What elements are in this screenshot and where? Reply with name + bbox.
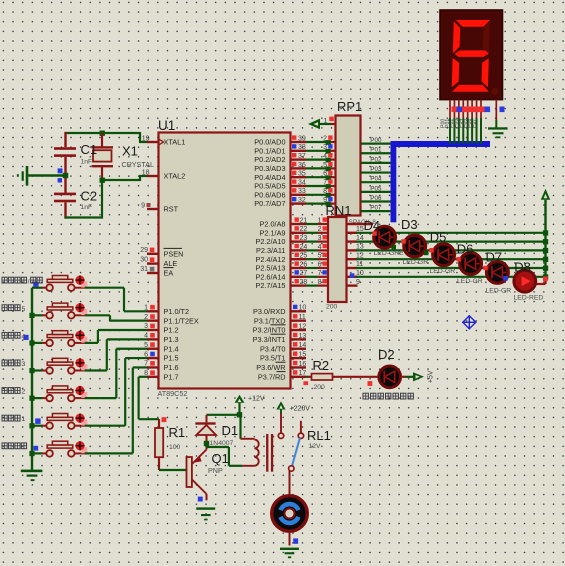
- wire net P03 from RP1 to bus: [361, 166, 393, 173]
- value AT89C52: [158, 389, 188, 398]
- svg-text:+12V: +12V: [248, 396, 265, 403]
- pin 32 P0.7: [291, 197, 307, 204]
- node rail junction: [543, 239, 548, 244]
- svg-text:R1: R1: [169, 425, 186, 440]
- wire P1.7 to R1: [139, 377, 159, 419]
- power +12V: [235, 395, 245, 415]
- U1 right pin names: [253, 138, 286, 382]
- pin 37 P0.2: [291, 153, 307, 160]
- wire P2.4 to RN1 pin 5: [306, 253, 328, 260]
- pin 18 XTAL2: [142, 169, 159, 176]
- svg-text:D2: D2: [378, 347, 395, 362]
- actuator btn level5: [75, 303, 87, 315]
- svg-text:5: 5: [22, 306, 26, 313]
- svg-text:RP1: RP1: [337, 99, 362, 114]
- svg-text:3: 3: [323, 144, 327, 151]
- wire Q1 emitter to relay coil: [207, 444, 243, 466]
- value RL1 12V: [309, 443, 322, 450]
- pin 36 P0.3: [291, 162, 307, 169]
- resistor-pack RP1 body: [336, 116, 361, 216]
- svg-text:12: 12: [356, 252, 364, 259]
- svg-text:P03: P03: [370, 166, 382, 173]
- svg-text:+220V: +220V: [290, 406, 311, 413]
- pin 9 RST: [141, 202, 158, 209]
- wire 7seg common to ground: [495, 120, 497, 128]
- svg-text:P02: P02: [370, 156, 382, 163]
- svg-text:P2.7/A15: P2.7/A15: [255, 281, 285, 290]
- wire P0.1 to RP1 pin 3: [306, 144, 335, 154]
- wire btn level5 to P1.1: [85, 315, 148, 320]
- label RL1: [307, 428, 331, 443]
- wire net P00 from RP1 to bus: [361, 137, 393, 144]
- pin 21 P2.0: [291, 217, 308, 224]
- node rail junction: [543, 248, 548, 253]
- svg-text:7: 7: [323, 179, 327, 186]
- value D5 LED-GR: [430, 268, 456, 275]
- 7seg segment f (lit): [453, 21, 460, 53]
- indicator red squares R2 row: [303, 381, 372, 386]
- svg-text:18: 18: [142, 169, 150, 176]
- indicator blue at RN1 pin 10: [350, 273, 355, 278]
- svg-text:D6: D6: [457, 241, 474, 256]
- svg-text:33: 33: [298, 188, 306, 195]
- pin 34 P0.5: [291, 179, 307, 186]
- node rail junction button: [29, 340, 34, 345]
- svg-text:14: 14: [299, 342, 307, 349]
- wire btn level2 to P1.4: [85, 349, 148, 398]
- svg-text:ALE: ALE: [164, 259, 178, 268]
- 7seg segment a (lit): [456, 20, 490, 27]
- pin 13 P3.3: [291, 333, 307, 340]
- svg-text:P0.3/AD3: P0.3/AD3: [254, 164, 285, 173]
- svg-text:U1: U1: [158, 118, 175, 133]
- svg-text:6: 6: [318, 261, 322, 268]
- actuator btn level3: [75, 358, 87, 370]
- wire P2.2 to RN1 pin 3: [306, 235, 328, 242]
- wire net P05 from RP1 to bus: [361, 185, 393, 192]
- wire net P01 from RP1 to bus: [361, 147, 393, 154]
- svg-text:P2.0/A8: P2.0/A8: [260, 220, 286, 229]
- svg-text:P07: P07: [471, 119, 477, 128]
- svg-text:31: 31: [140, 266, 148, 273]
- svg-text:7: 7: [318, 270, 322, 277]
- svg-text:29: 29: [140, 247, 148, 254]
- label D4: [364, 218, 381, 233]
- wire XTAL1 net top: [65, 132, 148, 142]
- svg-text:P1.1/T2EX: P1.1/T2EX: [164, 316, 199, 325]
- wire P0.5 to RP1 pin 7: [306, 179, 335, 189]
- actuator btn level1: [75, 414, 87, 426]
- svg-text:P3.5/T1: P3.5/T1: [260, 354, 286, 363]
- svg-text:XTAL1: XTAL1: [164, 138, 186, 147]
- 7seg segment e (lit): [452, 58, 459, 87]
- indicator red at R1 top: [162, 417, 167, 422]
- LED D4: [374, 226, 396, 248]
- svg-text:P3.4/T0: P3.4/T0: [260, 344, 286, 353]
- wire btn manual to P1.6: [85, 367, 148, 453]
- LED D7: [487, 262, 509, 284]
- node rail junction: [543, 266, 548, 271]
- LED D6: [460, 253, 482, 275]
- svg-text:P3.6/WR: P3.6/WR: [256, 363, 285, 372]
- value R1 100: [169, 444, 181, 451]
- wire net P07 from RP1 to bus: [361, 205, 393, 212]
- ground Q1: [196, 507, 215, 520]
- indicator squares near LEDs: [372, 231, 508, 280]
- op U1 AT89C52 body: [159, 133, 291, 389]
- svg-text:RN1: RN1: [326, 203, 352, 218]
- svg-text:P0.7/AD7: P0.7/AD7: [254, 199, 285, 208]
- svg-text:12: 12: [299, 323, 307, 330]
- wire +12V to relay coil top: [239, 415, 241, 439]
- indicator blue Q1: [198, 497, 203, 502]
- wire C2 to XTAL2: [65, 182, 103, 219]
- svg-text:C2: C2: [81, 189, 98, 204]
- svg-text:13: 13: [299, 333, 307, 340]
- svg-text:P04: P04: [370, 176, 382, 183]
- svg-text:34: 34: [298, 179, 306, 186]
- value D3 LED-GR: [403, 259, 429, 266]
- value D2 (chinese): [363, 393, 413, 399]
- relay RL1 coil: [241, 439, 259, 466]
- label D8: [514, 260, 531, 275]
- actuator btn manual: [75, 441, 87, 453]
- label btn level2 (chinese): [2, 388, 26, 396]
- resistor R2: [312, 374, 333, 380]
- pin 10 P3.0: [291, 305, 307, 312]
- pin 13 RN1 wire to LED rail: [347, 244, 546, 251]
- wire button common rail: [31, 288, 33, 470]
- wire P2.7 to RN1 pin 8: [306, 279, 328, 286]
- value +220V: [290, 406, 311, 413]
- 7seg rotated net labels: [440, 119, 477, 128]
- value D1 1N4007: [210, 440, 234, 447]
- svg-text:P3.7/RD: P3.7/RD: [258, 372, 286, 381]
- svg-text:/: /: [28, 278, 30, 285]
- svg-text:4: 4: [22, 333, 26, 340]
- wire +12V to D1: [207, 414, 240, 416]
- svg-text:C1: C1: [81, 142, 98, 157]
- relay RL1 blade: [289, 438, 300, 471]
- svg-text:CRYSTAL: CRYSTAL: [122, 160, 155, 169]
- svg-text:P05: P05: [370, 185, 382, 192]
- pin 25 P2.4: [291, 253, 308, 260]
- wire P0.6 to RP1 pin 8: [306, 188, 335, 198]
- capacitor C1: [54, 132, 76, 173]
- bus P0 (blue): [391, 141, 491, 222]
- switch btn level5: [32, 303, 85, 319]
- wire net P06 from RP1 to bus: [361, 195, 393, 202]
- pin 24 P2.3: [291, 244, 308, 251]
- value CRYSTAL: [122, 160, 155, 169]
- svg-text:P1.4: P1.4: [164, 344, 179, 353]
- transistor Q1 PNP: [187, 444, 207, 501]
- svg-text:R2: R2: [313, 358, 330, 373]
- motor: [272, 496, 308, 532]
- power +5V arrow: [413, 372, 424, 381]
- indicator blue squares at cap node: [58, 168, 63, 182]
- svg-text:13: 13: [356, 244, 364, 251]
- svg-text:17: 17: [299, 370, 307, 377]
- wire P2.3 to RN1 pin 4: [306, 244, 328, 251]
- pin 2 P1.1: [144, 314, 158, 321]
- pin 3 P1.2: [144, 323, 158, 330]
- wire 7seg pins to bus: [450, 118, 481, 144]
- label btn level4 (chinese): [2, 332, 26, 340]
- svg-text:D7: D7: [486, 250, 503, 265]
- origin marker (blue): [462, 315, 476, 329]
- ground left of caps: [17, 166, 63, 186]
- value RESPACK-8: [349, 219, 377, 226]
- resistor-pack RN1 body: [328, 217, 347, 302]
- pin 11 RN1 wire to LED rail: [347, 261, 546, 268]
- value D8 LED-RED: [514, 295, 544, 302]
- label D7: [486, 250, 503, 265]
- svg-text:200: 200: [326, 304, 338, 311]
- svg-text:P3.1/TXD: P3.1/TXD: [254, 316, 286, 325]
- svg-text:P2.6/A14: P2.6/A14: [255, 272, 285, 281]
- ground motor: [280, 548, 299, 559]
- svg-text:D1: D1: [222, 423, 239, 438]
- svg-text:P0.6/AD6: P0.6/AD6: [254, 190, 285, 199]
- switch btn level2: [32, 386, 85, 402]
- svg-text:D4: D4: [364, 218, 381, 233]
- LED D2: [379, 366, 401, 388]
- indicator strip at 7seg pins: [452, 107, 505, 113]
- pin 28 P2.7: [291, 279, 308, 286]
- 7seg segment g (lit): [455, 50, 489, 57]
- svg-text:4: 4: [318, 244, 322, 251]
- svg-text:38: 38: [298, 144, 306, 151]
- label Q1: [212, 451, 229, 466]
- power +220V: [276, 401, 285, 438]
- svg-text:P0.5/AD5: P0.5/AD5: [254, 182, 285, 191]
- pin 26 P2.5: [291, 261, 308, 268]
- label R1: [169, 425, 186, 440]
- value +5V (rotated): [428, 370, 435, 383]
- svg-text:9: 9: [356, 279, 360, 286]
- pin 12 RN1 wire to LED rail: [347, 252, 546, 259]
- node XTAL1-X1 junction: [100, 131, 105, 136]
- value C1 1nF: [81, 159, 93, 166]
- switch btn stop: [32, 276, 85, 292]
- switch btn manual: [32, 441, 85, 457]
- svg-text:X1: X1: [122, 144, 138, 159]
- svg-text:LED-GRE: LED-GRE: [374, 250, 405, 257]
- wire P2.5 to RN1 pin 6: [306, 261, 328, 268]
- diode D1: [195, 415, 216, 441]
- svg-text:P1.2: P1.2: [164, 326, 179, 335]
- svg-text:11: 11: [356, 261, 363, 268]
- node rail junction: [543, 230, 548, 235]
- svg-text:P06: P06: [370, 195, 382, 202]
- wire motor to ground: [289, 533, 291, 546]
- pin 10 RN1 wire to LED rail: [347, 270, 546, 277]
- pin 23 P2.2: [291, 235, 308, 242]
- label D3: [401, 217, 418, 232]
- svg-text:P01: P01: [370, 147, 382, 154]
- svg-text:1nF: 1nF: [81, 159, 93, 166]
- pin 33 P0.6: [291, 188, 307, 195]
- svg-text:PSEN: PSEN: [164, 249, 184, 258]
- svg-text:3: 3: [318, 235, 322, 242]
- label D6: [457, 241, 474, 256]
- node rail junction button: [29, 368, 34, 373]
- value D6 LED-GR: [457, 278, 483, 285]
- node rail junction: [543, 274, 548, 279]
- svg-text:30: 30: [140, 257, 148, 264]
- 7seg display body: [440, 10, 503, 100]
- svg-text:P3.0/RXD: P3.0/RXD: [253, 307, 285, 316]
- pin 14 RN1 wire to LED rail: [347, 235, 546, 242]
- svg-text:32: 32: [298, 197, 306, 204]
- wire btn stop to P1.0: [85, 288, 148, 312]
- svg-text:4: 4: [323, 153, 327, 160]
- svg-text:P2.5/A13: P2.5/A13: [255, 264, 285, 273]
- label RN1: [326, 203, 352, 218]
- 7seg segment d (lit): [452, 85, 489, 92]
- value Q1 PNP: [208, 466, 223, 475]
- wire P0.3 to RP1 pin 5: [306, 162, 335, 172]
- svg-text:P3.2/INT0: P3.2/INT0: [253, 326, 286, 335]
- node cap midpoint junction: [63, 173, 68, 178]
- LED D8: [514, 270, 536, 292]
- svg-text:8: 8: [323, 188, 327, 195]
- pin 11 P3.1: [291, 314, 307, 321]
- wire P0.0 to RP1 pin 2: [306, 135, 335, 145]
- value +12V: [248, 396, 265, 403]
- svg-text:9: 9: [141, 202, 145, 209]
- pin 1 P1.0: [144, 305, 158, 312]
- 7seg segment b (unlit): [483, 22, 490, 54]
- switch btn level4: [32, 331, 85, 347]
- pin 35 P0.4: [291, 171, 307, 178]
- U1 left pin names: [159, 138, 199, 382]
- switch btn level1: [32, 414, 85, 430]
- svg-text:P0.2/AD2: P0.2/AD2: [254, 155, 285, 164]
- svg-text:P00: P00: [370, 137, 382, 144]
- label D2: [378, 347, 395, 362]
- pin 6 P1.5: [144, 351, 158, 358]
- actuator btn stop: [75, 276, 87, 288]
- pin 38 P0.1: [291, 144, 307, 151]
- label U1: [158, 118, 175, 133]
- pin 14 P3.4: [291, 342, 307, 349]
- svg-text:P1.3: P1.3: [164, 335, 179, 344]
- 7seg pins: [450, 100, 496, 120]
- wire btn level4 to P1.2: [85, 330, 148, 343]
- label D5: [430, 230, 447, 245]
- svg-text:200: 200: [314, 384, 326, 391]
- svg-text:P0.0/AD0: P0.0/AD0: [254, 138, 285, 147]
- switch btn level3: [32, 358, 85, 374]
- svg-text:19: 19: [142, 135, 150, 142]
- svg-text:P2.3/A11: P2.3/A11: [256, 246, 285, 255]
- svg-text:PNP: PNP: [208, 466, 223, 475]
- svg-text:P3.3/INT1: P3.3/INT1: [253, 335, 286, 344]
- label RP1: [337, 99, 362, 114]
- svg-text:+5V: +5V: [428, 370, 435, 383]
- node rail junction button: [29, 313, 34, 318]
- svg-text:14: 14: [356, 235, 364, 242]
- actuator btn level2: [75, 386, 87, 398]
- svg-text:RST: RST: [164, 205, 179, 214]
- value C2 1nF: [81, 204, 93, 211]
- wire P0.4 to RP1 pin 6: [306, 171, 335, 181]
- capacitor C2: [54, 178, 76, 219]
- 7seg segment c (lit): [482, 58, 489, 87]
- wire XTAL2 net: [102, 176, 148, 181]
- svg-text:Q1: Q1: [212, 451, 229, 466]
- pin 27 P2.6: [291, 270, 308, 277]
- svg-text:D8: D8: [514, 260, 531, 275]
- svg-text:AT89C52: AT89C52: [158, 389, 188, 398]
- value RN1 200: [326, 304, 338, 311]
- wire P0.2 to RP1 pin 4: [306, 153, 335, 163]
- wire D2 to +5V: [401, 376, 414, 378]
- power arrow LED rail: [541, 189, 550, 277]
- pin 19 XTAL1: [142, 135, 159, 142]
- svg-text:P1.0/T2: P1.0/T2: [164, 307, 190, 316]
- relay RL1 contact common: [298, 421, 303, 439]
- svg-text:D5: D5: [430, 230, 447, 245]
- crystal X1: [92, 133, 114, 180]
- svg-text:37: 37: [298, 153, 306, 160]
- svg-text:11: 11: [299, 314, 306, 321]
- svg-text:2: 2: [22, 389, 26, 396]
- svg-text:LED-GR: LED-GR: [457, 278, 483, 285]
- svg-text:LED-GR: LED-GR: [486, 288, 512, 295]
- wire btn level1 to P1.5: [85, 358, 148, 426]
- pin 12 P3.2: [291, 323, 307, 330]
- svg-text:10: 10: [299, 305, 307, 312]
- svg-text:1: 1: [324, 118, 328, 125]
- wire P2.0 to RN1 pin 1: [306, 217, 328, 224]
- svg-text:LED-RED: LED-RED: [514, 295, 544, 302]
- pin 1 RP1: [324, 117, 335, 125]
- resistor R1: [155, 419, 163, 470]
- svg-text:P1.6: P1.6: [164, 363, 179, 372]
- label C2: [81, 189, 98, 204]
- svg-text:12V: 12V: [309, 443, 322, 450]
- wire P3.7 to R2: [306, 376, 312, 378]
- wire relay to motor: [289, 471, 291, 495]
- svg-text:3: 3: [22, 361, 26, 368]
- pin 8 P1.7: [144, 370, 158, 377]
- label btn stop (chinese): [2, 277, 42, 285]
- svg-text:5: 5: [323, 162, 327, 169]
- pin 9 RN1 stub: [347, 279, 361, 286]
- svg-text:2: 2: [318, 226, 322, 233]
- label btn manual (chinese): [2, 443, 27, 449]
- svg-text:100: 100: [169, 444, 181, 451]
- node XTAL2-X1 junction: [100, 178, 105, 183]
- svg-text:16: 16: [299, 361, 307, 368]
- wire D8 to rail: [536, 276, 548, 284]
- svg-text:8: 8: [318, 279, 322, 286]
- svg-text:LED-GR: LED-GR: [403, 259, 429, 266]
- pin 17 P3.7: [291, 370, 307, 377]
- power arrow at RP1 pin 1: [308, 119, 331, 130]
- svg-text:15: 15: [299, 351, 307, 358]
- indicator blue squares buttons: [23, 282, 40, 451]
- svg-text:2: 2: [323, 135, 327, 142]
- ground button rail: [21, 470, 43, 482]
- svg-text:XTAL2: XTAL2: [164, 172, 186, 181]
- label R2: [313, 358, 330, 373]
- svg-text:EA: EA: [164, 269, 174, 278]
- pin 22 P2.1: [291, 226, 308, 233]
